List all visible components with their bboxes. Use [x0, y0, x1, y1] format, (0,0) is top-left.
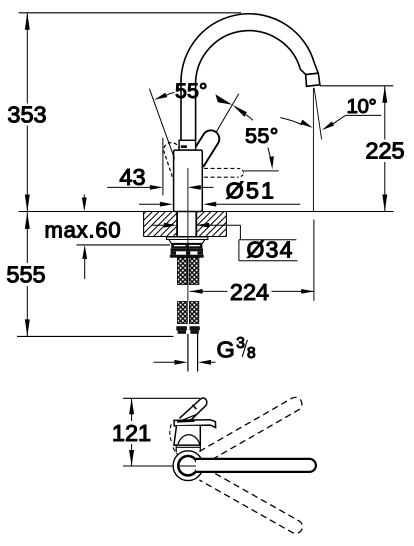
deck left edge	[143, 212, 145, 237]
braided hose lower left	[178, 302, 188, 324]
dimension 225 line	[384, 86, 386, 212]
flange block	[169, 240, 205, 244]
angle 55 lower arc	[280, 118, 302, 125]
dimension D51 line	[139, 203, 300, 205]
max.60 lower arrow	[82, 245, 87, 259]
dimension 43 reference line	[162, 138, 164, 196]
svg-text:3: 3	[236, 335, 245, 352]
svg-text:10°: 10°	[347, 95, 377, 118]
base outer circle	[173, 451, 203, 481]
svg-text:Ø51: Ø51	[226, 177, 276, 203]
angle 55 lower arc stub	[246, 115, 253, 121]
spout arc (outer)	[181, 14, 318, 82]
deck bottom line	[144, 236, 227, 238]
top reference line	[19, 12, 241, 14]
angle 55 solid lever axis ray	[216, 94, 239, 133]
angle 10 leader	[333, 115, 381, 124]
hose end fitting left	[176, 326, 187, 330]
svg-text:Ø34: Ø34	[247, 236, 294, 262]
counter deck hatch left	[144, 212, 177, 237]
angle 10 arrow	[322, 122, 334, 131]
dimension 224 line	[190, 290, 315, 292]
G3/8 connection pipe	[188, 334, 198, 372]
svg-text:55°: 55°	[175, 79, 208, 103]
deck reference line	[19, 211, 394, 213]
swivel spout dashed (lower position)	[199, 468, 302, 533]
dashed alternate lever arcs	[170, 424, 179, 456]
water stream 10deg slanted line	[314, 88, 321, 139]
svg-text:224: 224	[230, 279, 269, 305]
svg-text:max.60: max.60	[45, 218, 122, 243]
spout tube top view (bold)	[196, 459, 316, 472]
max.60 lower reference line	[77, 244, 171, 246]
max.60 upper arrow	[82, 198, 87, 212]
dashed lever leader line	[244, 170, 279, 172]
angle 55 upper ray (dashed lever axis)	[149, 89, 174, 159]
water stream vertical line	[312, 88, 314, 212]
lever bar top view	[174, 420, 216, 428]
angle 55 upper left arrow	[154, 93, 167, 100]
faucet body	[174, 150, 203, 211]
dimension 353 line	[26, 13, 28, 212]
svg-text:43: 43	[119, 164, 145, 190]
dimension G3/8 line	[154, 361, 216, 363]
braided hose lower right	[189, 302, 198, 324]
svg-text:121: 121	[112, 420, 151, 446]
base inner circle (bold)	[178, 456, 197, 475]
spout axis line inside circle	[179, 465, 198, 467]
spout arc (inner)	[196, 31, 306, 82]
svg-text:55°: 55°	[245, 124, 279, 148]
escutcheon top view	[176, 445, 200, 452]
solid lever handle	[189, 130, 219, 166]
braided hose upper left	[177, 258, 187, 285]
cartridge cap top view	[174, 426, 200, 445]
mounting nut	[171, 248, 203, 251]
dashed lever (pushed-down position)	[204, 168, 237, 177]
angle 55 lower arc arrow	[300, 120, 313, 128]
top view reference line (lever tip)	[123, 397, 200, 399]
svg-text:8: 8	[247, 345, 256, 362]
dimension 224 right extension line	[313, 220, 315, 301]
top view reference line (spout axis)	[123, 465, 173, 467]
dimension 43 line	[107, 186, 213, 188]
dimension 121 line	[131, 398, 133, 466]
cartridge collar	[179, 140, 196, 150]
svg-text:G: G	[217, 337, 235, 363]
dimension D34 arrows	[153, 224, 241, 226]
seal band (dark)	[171, 243, 202, 248]
angle 55 lower leader arrow	[268, 148, 272, 163]
angle 55 bowtie arrows	[215, 94, 247, 117]
hose-end reference line	[17, 335, 174, 337]
lever tip raised outline	[180, 398, 207, 425]
spout neck pipe	[181, 81, 196, 140]
aerator end cap line	[306, 73, 319, 74]
counter deck hatch right	[196, 212, 226, 237]
dimension D34 leader and box	[239, 225, 298, 261]
svg-text:555: 555	[6, 262, 45, 288]
dimension 225 top reference line	[320, 85, 393, 87]
centerline	[187, 168, 189, 301]
washer plate	[167, 237, 208, 240]
hose end fitting right	[190, 326, 200, 330]
lever set-screw mark	[181, 145, 187, 148]
dimension 555 line	[26, 212, 28, 337]
svg-text:225: 225	[365, 138, 404, 164]
braided hose upper right	[189, 258, 199, 285]
dashed lever (left open position)	[164, 143, 191, 186]
deck right edge	[225, 212, 227, 237]
aerator box	[306, 73, 320, 86]
swivel spout dashed (upper position)	[199, 397, 302, 463]
svg-text:353: 353	[7, 101, 46, 127]
shank tube through deck	[177, 212, 196, 237]
